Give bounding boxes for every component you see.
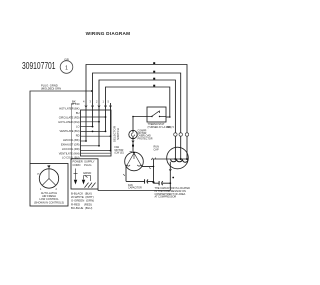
cabinet outline (left box) (30, 91, 93, 164)
selector switch box (81, 110, 112, 156)
plug blade arrows (74, 180, 77, 185)
svg-text:SWITCH: SWITCH (116, 128, 120, 140)
svg-text:WIRING DIAGRAM: WIRING DIAGRAM (86, 31, 131, 36)
svg-text:CAPACITOR: CAPACITOR (128, 187, 142, 190)
svg-text:HOT-LATER (WH): HOT-LATER (WH) (58, 120, 79, 124)
svg-text:3: 3 (90, 100, 92, 104)
svg-text:PROTECTOR: PROTECTOR (138, 137, 153, 140)
svg-text:5: 5 (173, 126, 175, 129)
fan motor label (115, 146, 124, 155)
svg-text:RD: RD (76, 134, 80, 138)
run cap label (154, 146, 160, 152)
rotary switch (39, 169, 58, 188)
svg-text:CORD PLUG: CORD PLUG (73, 163, 92, 167)
svg-text:AT COMPRESSOR: AT COMPRESSOR (155, 196, 177, 199)
terminal ticks on verticals entering selector switch (85, 106, 112, 108)
ground wire marker circle 1 (60, 58, 73, 74)
svg-text:H: H (38, 173, 40, 176)
wire tags on top loops (153, 62, 155, 86)
svg-text:2: 2 (96, 100, 98, 104)
plug blade wires (76, 169, 91, 182)
compressor windings (171, 159, 188, 162)
svg-text:309107701: 309107701 (22, 61, 56, 72)
fan left wire (126, 165, 127, 182)
svg-text:BU-BLUE (BLU): BU-BLUE (BLU) (71, 206, 92, 210)
junction dots in ladder (85, 116, 111, 151)
svg-text:(MOLDED) GRN: (MOLDED) GRN (41, 87, 61, 91)
svg-text:HI/COOL (BK): HI/COOL (BK) (63, 138, 80, 142)
svg-text:1: 1 (40, 188, 42, 191)
svg-text:GRND: GRND (83, 171, 91, 175)
compressor bottom wire (169, 162, 171, 191)
inline connectors (174, 133, 177, 136)
wire loop 2 (93, 73, 181, 133)
svg-text:VENTILATE (BU): VENTILATE (BU) (60, 129, 80, 133)
rotary switch label (34, 191, 64, 205)
svg-text:AT 120: AT 120 (71, 102, 80, 106)
rotary control switch box (30, 164, 68, 207)
compressor terminal wires from connectors (175, 136, 187, 159)
compressor (167, 147, 189, 169)
wire thermostat to loop4 (166, 116, 170, 118)
wire 5 vertical (110, 103, 112, 151)
svg-text:LO/COOL (RD): LO/COOL (RD) (62, 147, 80, 151)
svg-text:CIRCULATE (RD): CIRCULATE (RD) (59, 116, 80, 120)
svg-text:CAP: CAP (154, 149, 159, 152)
power supply cord box (71, 159, 98, 189)
svg-text:LO: LO (76, 125, 79, 129)
left terminal labels column (58, 102, 80, 160)
capacitor C2 plates (159, 181, 163, 185)
wire loop 4 (to thermostat) (106, 87, 170, 131)
capacitor labels (128, 184, 142, 190)
wire loop 1 (outermost BK) (86, 65, 187, 142)
capacitor rail (126, 181, 170, 183)
ground hatch (85, 183, 96, 188)
svg-text:VENTILATE (WH): VENTILATE (WH) (59, 152, 80, 156)
wire color legend (71, 191, 94, 210)
wire loop 3 (99, 80, 175, 146)
svg-text:1: 1 (65, 66, 68, 72)
fan windings (127, 153, 140, 165)
thermostat contacts (147, 111, 166, 117)
compressor chord / terminal bar (153, 158, 189, 160)
capacitor C1 plates (145, 179, 148, 183)
svg-text:(SHOWN IN CONTROLS): (SHOWN IN CONTROLS) (34, 200, 64, 204)
fan right wire (141, 165, 154, 167)
wire number labels above switch (83, 100, 110, 104)
svg-text:4: 4 (83, 100, 85, 104)
BK label + wire from power cord (72, 104, 77, 161)
overload label (138, 129, 153, 140)
rail junction dot (152, 181, 154, 183)
wire overload to fan motor (132, 139, 134, 153)
svg-text:POWER SUPPLY: POWER SUPPLY (73, 160, 95, 164)
svg-text:L: L (58, 173, 60, 176)
svg-text:(CW LE): (CW LE) (115, 152, 124, 155)
overload protector (129, 130, 137, 138)
switch ladder rungs (81, 117, 111, 153)
svg-text:1: 1 (103, 100, 105, 104)
svg-text:EXHAUST (OR): EXHAUST (OR) (61, 143, 80, 147)
svg-text:BK: BK (168, 126, 172, 129)
svg-text:BU: BU (76, 111, 80, 115)
svg-text:M: M (48, 165, 50, 168)
fan motor (125, 152, 144, 171)
power return wire (98, 190, 170, 192)
wire thermostat to overload (133, 117, 147, 131)
svg-text:2: 2 (56, 188, 58, 191)
svg-text:HOT-LATER (BK): HOT-LATER (BK) (59, 107, 79, 111)
svg-text:5: 5 (108, 100, 110, 104)
thermostat box (147, 107, 166, 122)
